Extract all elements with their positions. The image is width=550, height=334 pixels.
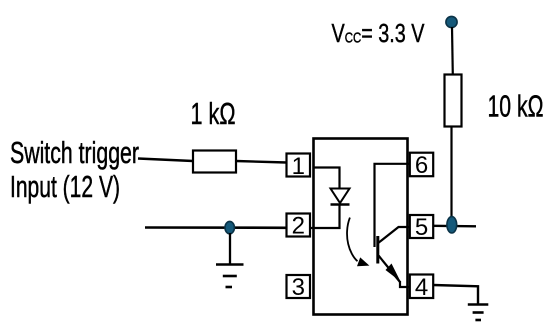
wire pin4 to ground G2 [433, 285, 478, 304]
svg-text:10 kΩ: 10 kΩ [488, 89, 544, 124]
svg-text:2: 2 [292, 213, 305, 240]
optocoupler body U1 [314, 139, 408, 315]
node pin5 junction [447, 217, 457, 233]
pin 4 box [410, 275, 433, 299]
node ground junction on pin2 wire [225, 221, 234, 233]
light arrow from LED to transistor [347, 218, 357, 262]
pin 6 box [410, 153, 433, 177]
svg-text:Input (12 V): Input (12 V) [10, 169, 120, 204]
svg-text:5: 5 [415, 214, 428, 241]
transistor collector to pin5 [379, 227, 411, 243]
svg-text:6: 6 [415, 152, 428, 179]
node Vcc (top supply dot) [446, 16, 457, 27]
transistor emitter with arrow to pin4 [379, 256, 401, 283]
ground G1 [216, 265, 244, 288]
wire R1 to pin1 [236, 161, 287, 163]
svg-text:1: 1 [292, 153, 305, 180]
ground G2 [468, 305, 489, 321]
pin 5 box [410, 215, 433, 238]
svg-text:4: 4 [415, 274, 428, 301]
pin 2 box [287, 214, 311, 237]
svg-text:Switch trigger: Switch trigger [10, 135, 139, 170]
svg-text:3: 3 [292, 274, 305, 301]
wire junction to ground G1 [229, 233, 231, 264]
resistor R1 (horizontal 1k) [193, 151, 236, 173]
pin 1 box [287, 154, 311, 177]
svg-text:1 kΩ: 1 kΩ [191, 96, 236, 131]
wire pin6 to transistor base [375, 164, 411, 247]
wire LED cathode to pin2 [310, 205, 340, 228]
transistor Q1 base bar [376, 236, 379, 264]
wire input line 2 to pin2 [145, 226, 287, 229]
LED D1 (triangle + cathode bar) [331, 189, 350, 204]
resistor R2 (vertical 10k) [445, 75, 462, 127]
wire input text to R1 [138, 159, 193, 162]
wire pin5 to right stub through node [433, 225, 476, 228]
pin 3 box [287, 275, 311, 298]
wire pin1 to LED anode [313, 168, 340, 190]
wire Vcc node to resistor R2 [451, 27, 454, 75]
wire R2 to pin5 node [450, 127, 452, 221]
